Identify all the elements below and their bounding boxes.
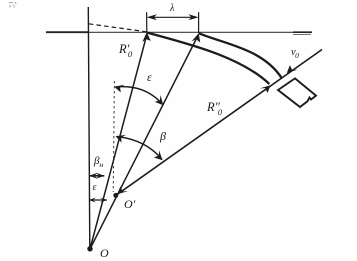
arrowhead v0 velocity	[287, 65, 298, 73]
trajectory arc lower (from R'0 point)	[147, 33, 269, 85]
line R''0 from O' extended	[116, 50, 322, 196]
arrowhead beta right	[154, 150, 163, 160]
label R'0	[119, 42, 132, 59]
label O	[100, 246, 109, 261]
line R'0 from O	[90, 34, 147, 249]
horizon doubled right end	[293, 33, 311, 35]
arrowhead beta left	[116, 135, 127, 143]
arrowhead epsilon right	[155, 95, 164, 105]
label beta	[160, 129, 166, 144]
lambda right tick	[198, 12, 200, 33]
arrowhead epsilon left	[114, 85, 124, 93]
epsilon angle arc upper	[116, 87, 163, 105]
label epsilon upper	[147, 70, 152, 85]
label O'	[124, 197, 135, 212]
label lambda	[170, 3, 174, 14]
arrowhead lead line tip	[192, 33, 201, 43]
lead line from O to advanced point	[90, 35, 199, 250]
horizon line	[46, 31, 312, 33]
vertical line at O	[88, 7, 90, 249]
target plate	[278, 78, 316, 107]
beta_n double arrow	[89, 175, 104, 177]
lambda left tick	[146, 12, 148, 32]
lambda left arrowhead	[147, 14, 157, 20]
dashed vertical at O'	[113, 81, 114, 192]
trajectory arc upper (from lead point)	[199, 33, 282, 78]
arrowhead R'0 tip	[142, 32, 151, 42]
label R''0	[207, 100, 222, 117]
label v0	[291, 47, 299, 60]
label epsilon lower	[93, 182, 97, 193]
lambda right arrowhead	[189, 14, 199, 20]
epsilon lower double arrow	[89, 199, 107, 201]
beta angle arc	[117, 137, 162, 160]
dashed construction line	[89, 24, 147, 32]
point O dot	[87, 246, 92, 251]
point O' dot	[113, 193, 118, 198]
scan artifact top-left	[9, 2, 16, 8]
arrowhead R''0 at target	[260, 85, 271, 93]
lambda dimension shaft	[149, 16, 197, 18]
arrowhead R''0 into O'	[117, 187, 128, 195]
label beta_n	[94, 155, 103, 169]
